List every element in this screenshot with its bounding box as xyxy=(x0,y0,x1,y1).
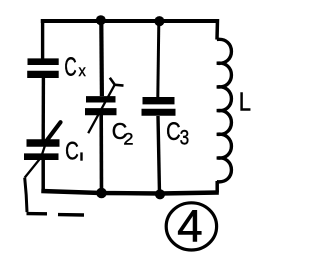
label L xyxy=(239,87,251,117)
wire top bus xyxy=(41,19,218,23)
figure number 4 xyxy=(177,201,203,252)
svg-text:C: C xyxy=(64,52,76,82)
mechanical link dash 2 xyxy=(58,213,84,217)
svg-text:C: C xyxy=(65,138,79,166)
svg-text:3: 3 xyxy=(180,127,190,150)
wire C2 lower lead xyxy=(99,115,103,193)
C2 arrowhead barbs xyxy=(110,78,124,86)
node junction dot top (C3 branch) xyxy=(154,16,164,26)
C2 adjustment arrow shaft xyxy=(88,85,115,134)
C1 arrowhead stroke xyxy=(46,122,61,141)
wire left vertical (C1 to bottom corner) xyxy=(41,160,45,192)
wire C3 upper lead xyxy=(158,23,159,97)
label C2 xyxy=(112,118,134,148)
C1 adjustment arrow shaft xyxy=(25,138,48,178)
svg-text:4: 4 xyxy=(177,201,203,252)
svg-text:x: x xyxy=(79,63,86,80)
label C3 xyxy=(166,118,189,150)
node junction dot top-left (C2 branch) xyxy=(96,15,106,25)
wire left vertical (top corner to Cx) xyxy=(41,19,44,60)
svg-text:C: C xyxy=(166,118,181,146)
svg-text:L: L xyxy=(239,87,251,117)
wire bottom bus xyxy=(41,191,219,194)
capacitor C2 (variable) plates xyxy=(85,99,117,111)
wire C3 lower lead xyxy=(158,116,160,194)
node junction dot bottom (C2 branch) xyxy=(96,188,107,199)
mechanical link dash 1 xyxy=(27,212,48,216)
capacitor Cx xyxy=(27,62,59,75)
capacitor C1 (variable) plates xyxy=(24,143,60,157)
wire right vertical (coil to bottom corner) xyxy=(215,181,219,193)
capacitor C3 plates xyxy=(142,101,176,113)
svg-text:2: 2 xyxy=(123,129,133,148)
figure number circle xyxy=(166,203,216,250)
label Cx xyxy=(64,52,85,82)
node junction dot bottom (C3 branch) xyxy=(155,189,165,199)
mechanical link line from C1 arrow xyxy=(25,178,27,212)
wire right vertical (top corner to coil) xyxy=(215,19,219,40)
label C1 xyxy=(65,138,83,166)
wire left vertical (Cx to C1) xyxy=(42,78,46,140)
inductor L coil (6 loops) xyxy=(217,39,232,182)
wire C2 upper lead xyxy=(99,22,104,96)
